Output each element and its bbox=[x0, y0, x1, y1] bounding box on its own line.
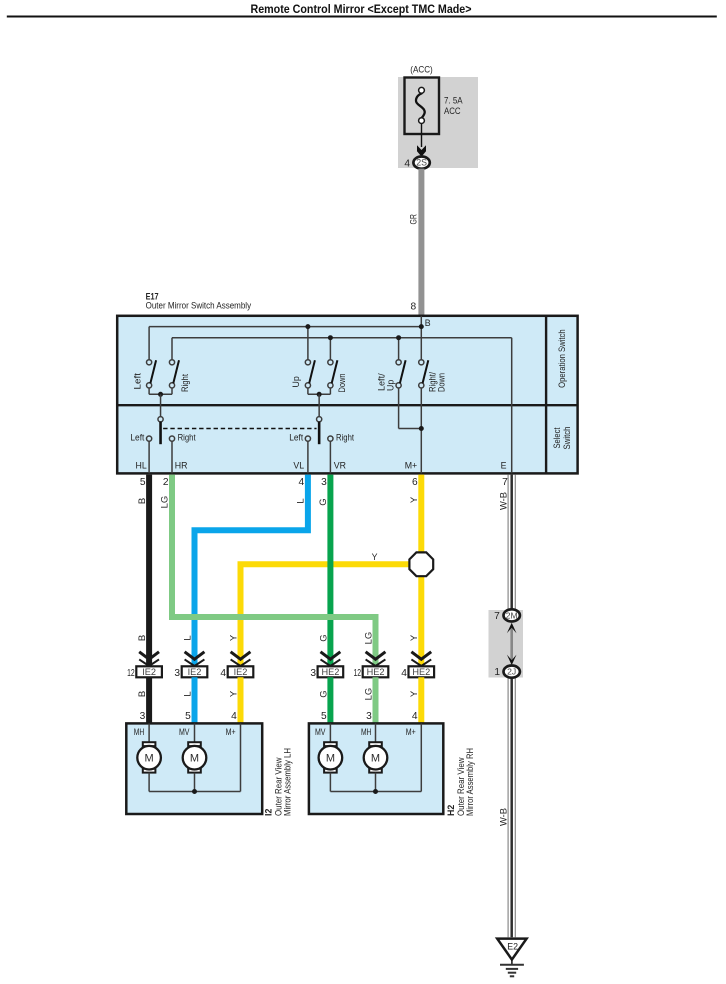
svg-text:Up: Up bbox=[291, 376, 301, 387]
connector IE2 pin 4 bbox=[220, 652, 253, 679]
svg-text:8: 8 bbox=[411, 302, 417, 313]
svg-text:Y: Y bbox=[409, 634, 420, 641]
svg-text:B: B bbox=[137, 635, 148, 641]
wire W-B 2J to ground bbox=[508, 678, 515, 938]
wire LG HR to HE2 bbox=[172, 475, 376, 667]
svg-text:M: M bbox=[371, 753, 380, 765]
motor M vertical (RH) bbox=[319, 723, 343, 772]
terminals MV MH M+ (RH) bbox=[315, 727, 416, 737]
connector 2M pin 7 bbox=[494, 609, 520, 622]
pins 5 3 4 (RH) bbox=[321, 711, 418, 722]
svg-text:M+: M+ bbox=[226, 727, 236, 737]
svg-text:MH: MH bbox=[361, 727, 372, 737]
label Right/Down bbox=[428, 372, 447, 392]
svg-text:4: 4 bbox=[299, 477, 305, 488]
svg-text:W-B: W-B bbox=[499, 808, 510, 826]
svg-text:B: B bbox=[425, 318, 431, 328]
svg-text:Left: Left bbox=[130, 433, 145, 443]
pin 8 bbox=[411, 302, 417, 313]
fuse 7.5A ACC bbox=[405, 78, 463, 135]
svg-text:H2: H2 bbox=[446, 805, 456, 816]
label Up bbox=[291, 376, 301, 387]
svg-text:5: 5 bbox=[185, 711, 191, 722]
wire G to RH box bbox=[327, 677, 333, 723]
wire Y to LH box bbox=[238, 677, 244, 723]
pins 3 5 4 (LH) bbox=[140, 711, 238, 722]
switch Left bbox=[147, 360, 157, 388]
svg-text:Left: Left bbox=[289, 433, 304, 443]
svg-text:Operation Switch: Operation Switch bbox=[557, 329, 567, 388]
divider right column bbox=[545, 316, 547, 474]
ground E2 bbox=[497, 939, 526, 977]
svg-text:Right: Right bbox=[178, 433, 196, 443]
svg-text:B: B bbox=[137, 691, 148, 697]
connector 2S pin 4 bbox=[404, 157, 429, 170]
svg-text:6: 6 bbox=[412, 477, 418, 488]
svg-text:2M: 2M bbox=[506, 611, 518, 621]
svg-text:M+: M+ bbox=[405, 461, 417, 471]
svg-text:L: L bbox=[182, 691, 193, 696]
svg-text:Select: Select bbox=[552, 427, 562, 448]
connector HE2 pin 12 bbox=[354, 652, 389, 679]
svg-text:4: 4 bbox=[412, 711, 418, 722]
label (ACC) bbox=[410, 65, 433, 75]
svg-text:M: M bbox=[326, 753, 335, 765]
switch Down bbox=[328, 360, 338, 388]
svg-text:5: 5 bbox=[140, 477, 146, 488]
wire W-B E to connector 2M bbox=[508, 475, 515, 610]
connector HE2 pin 3 bbox=[310, 652, 343, 679]
svg-text:G: G bbox=[318, 634, 329, 641]
svg-text:3: 3 bbox=[366, 711, 372, 722]
label Right bbox=[180, 374, 190, 392]
label I2 Outer Rear View Mirror Assembly LH bbox=[264, 748, 293, 816]
svg-text:LG: LG bbox=[160, 496, 171, 509]
switch Right/Down bbox=[419, 360, 429, 388]
svg-text:Y: Y bbox=[409, 690, 420, 697]
box H2 Outer Rear View Mirror Assembly RH bbox=[309, 723, 443, 814]
svg-text:IE2: IE2 bbox=[234, 667, 248, 677]
switch Right bbox=[169, 360, 179, 388]
switch Up bbox=[305, 360, 315, 388]
wire B black HL to IE2 bbox=[146, 475, 152, 667]
junction pair Left/Right to select pivot 1 bbox=[149, 388, 172, 417]
dashed mechanical link bbox=[163, 428, 316, 430]
select switch 2 pivot and blade bbox=[317, 417, 322, 445]
svg-text:7. 5A: 7. 5A bbox=[444, 96, 463, 106]
svg-text:E2: E2 bbox=[507, 941, 518, 951]
header rule bbox=[7, 16, 717, 18]
svg-text:HE2: HE2 bbox=[321, 667, 339, 677]
svg-text:1: 1 bbox=[494, 667, 500, 678]
svg-text:MH: MH bbox=[134, 727, 145, 737]
label E17 Outer Mirror Switch Assembly bbox=[146, 292, 252, 311]
svg-text:4: 4 bbox=[401, 668, 407, 679]
svg-text:Down: Down bbox=[436, 373, 446, 392]
box I2 Outer Rear View Mirror Assembly LH bbox=[126, 723, 262, 814]
svg-text:2S: 2S bbox=[416, 158, 427, 168]
svg-text:7: 7 bbox=[494, 611, 500, 622]
label B bbox=[425, 318, 431, 328]
svg-text:HE2: HE2 bbox=[367, 667, 385, 677]
title: Remote Control Mirror <Except TMC Made> bbox=[251, 2, 472, 16]
terminal labels HL HR VL VR M+ E bbox=[136, 461, 507, 471]
svg-text:3: 3 bbox=[140, 711, 146, 722]
splice octagon bbox=[409, 552, 433, 576]
svg-text:Mirror Assembly RH: Mirror Assembly RH bbox=[465, 748, 475, 816]
wire B to LH box bbox=[146, 677, 152, 723]
svg-text:Left: Left bbox=[132, 372, 142, 389]
svg-text:MV: MV bbox=[315, 727, 326, 737]
motor M horizontal (RH) bbox=[364, 723, 388, 772]
connector IE2 pin 12 bbox=[127, 652, 162, 679]
svg-text:Y: Y bbox=[228, 690, 239, 697]
svg-text:GR: GR bbox=[409, 214, 420, 225]
svg-text:MV: MV bbox=[179, 727, 190, 737]
svg-text:Right: Right bbox=[180, 374, 190, 392]
svg-text:VL: VL bbox=[293, 461, 304, 471]
svg-text:Mirror Assembly LH: Mirror Assembly LH bbox=[283, 748, 293, 816]
common return wiring (RH) bbox=[330, 723, 421, 794]
wire G green VR to HE2 bbox=[327, 475, 333, 667]
svg-text:3: 3 bbox=[174, 668, 180, 679]
select switch 1 contacts Left/Right bbox=[130, 433, 196, 474]
select switch 2 contacts Left/Right bbox=[289, 433, 354, 474]
connector 2J pin 1 bbox=[494, 666, 519, 679]
common return wiring (LH) bbox=[149, 723, 240, 794]
svg-text:2J: 2J bbox=[507, 667, 516, 677]
gray background (2M/2J junction) bbox=[489, 610, 524, 678]
label GR bbox=[409, 214, 420, 225]
labels B LG L G Y W-B (upper) bbox=[137, 492, 510, 510]
bus wire 2 (E return) bbox=[172, 335, 512, 473]
pins 5 2 4 3 6 7 bbox=[140, 477, 508, 488]
divider operation/select bbox=[117, 404, 577, 406]
label W-B (lower) bbox=[499, 808, 510, 826]
svg-text:G: G bbox=[318, 498, 329, 505]
svg-text:4: 4 bbox=[220, 668, 226, 679]
junction pair Up/Down to select pivot 2 bbox=[308, 388, 331, 417]
motor M vertical (LH) bbox=[183, 723, 207, 772]
wire GR bbox=[418, 169, 424, 315]
terminals MH MV M+ (LH) bbox=[134, 727, 236, 737]
labels B L Y G LG Y (above connectors) bbox=[137, 632, 420, 645]
connector HE2 pin 4 bbox=[401, 652, 434, 679]
label Left bbox=[132, 372, 142, 389]
svg-text:IE2: IE2 bbox=[142, 667, 156, 677]
svg-text:E: E bbox=[501, 461, 507, 471]
wire Y to RH box bbox=[418, 677, 424, 723]
gray background (fuse block) bbox=[398, 77, 478, 168]
svg-text:I2: I2 bbox=[264, 809, 274, 816]
svg-text:Y: Y bbox=[228, 634, 239, 641]
label H2 Outer Rear View Mirror Assembly RH bbox=[446, 748, 475, 816]
svg-text:IE2: IE2 bbox=[188, 667, 202, 677]
svg-text:L: L bbox=[182, 635, 193, 640]
svg-text:2: 2 bbox=[163, 477, 169, 488]
bus wire 1 (B feed) bbox=[149, 324, 424, 360]
svg-text:Right: Right bbox=[336, 433, 354, 443]
svg-text:3: 3 bbox=[321, 477, 327, 488]
svg-text:(ACC): (ACC) bbox=[410, 65, 433, 75]
svg-text:7: 7 bbox=[502, 477, 508, 488]
svg-text:B: B bbox=[137, 498, 148, 504]
wire LG to RH box bbox=[373, 677, 379, 723]
svg-text:Down: Down bbox=[337, 373, 347, 392]
svg-text:L: L bbox=[296, 498, 307, 503]
svg-text:Up: Up bbox=[385, 380, 395, 391]
svg-text:M+: M+ bbox=[406, 727, 416, 737]
wire Y yellow M+ with branch bbox=[241, 475, 422, 667]
label Operation Switch bbox=[557, 329, 567, 388]
svg-text:Y: Y bbox=[372, 552, 378, 562]
junction arrows between 2M and 2J bbox=[507, 623, 517, 665]
switch Left/Up bbox=[396, 360, 406, 388]
svg-text:HE2: HE2 bbox=[412, 667, 430, 677]
select switch 1 pivot and blade bbox=[158, 417, 163, 445]
svg-text:12: 12 bbox=[354, 668, 362, 679]
label Select Switch bbox=[552, 426, 572, 449]
wire L blue VL to IE2 bbox=[195, 475, 308, 667]
label Left/Up bbox=[377, 373, 396, 391]
svg-text:G: G bbox=[318, 690, 329, 697]
label Y (branch) bbox=[372, 552, 378, 562]
svg-text:W-B: W-B bbox=[499, 492, 510, 510]
svg-text:HR: HR bbox=[175, 461, 188, 471]
svg-text:ACC: ACC bbox=[444, 106, 461, 116]
svg-text:LG: LG bbox=[363, 688, 374, 701]
connector IE2 pin 3 bbox=[174, 652, 207, 679]
svg-text:M: M bbox=[190, 753, 199, 765]
wire fuse to 2S with arrow bbox=[417, 124, 426, 157]
wire L to LH box bbox=[192, 677, 198, 723]
svg-text:Switch: Switch bbox=[562, 426, 572, 449]
wire B vertical from pin 8 bbox=[420, 316, 422, 360]
svg-text:5: 5 bbox=[321, 711, 327, 722]
svg-text:3: 3 bbox=[310, 668, 316, 679]
motor M horizontal (LH) bbox=[137, 723, 161, 772]
svg-text:Outer Mirror Switch Assembly: Outer Mirror Switch Assembly bbox=[146, 300, 252, 310]
svg-text:Y: Y bbox=[409, 496, 420, 503]
label Down bbox=[337, 373, 347, 392]
svg-text:4: 4 bbox=[231, 711, 237, 722]
junction Left/Up + Right/Down to M+ bbox=[399, 388, 424, 473]
svg-text:12: 12 bbox=[127, 668, 135, 679]
box E17 Outer Mirror Switch Assembly bbox=[117, 316, 577, 474]
svg-text:Remote Control Mirror <Except: Remote Control Mirror <Except TMC Made> bbox=[251, 2, 472, 16]
svg-text:VR: VR bbox=[334, 461, 346, 471]
svg-text:HL: HL bbox=[136, 461, 147, 471]
svg-text:LG: LG bbox=[363, 632, 374, 645]
svg-text:M: M bbox=[145, 753, 154, 765]
svg-text:4: 4 bbox=[404, 158, 410, 169]
labels B L Y G LG Y (below connectors) bbox=[137, 688, 420, 701]
